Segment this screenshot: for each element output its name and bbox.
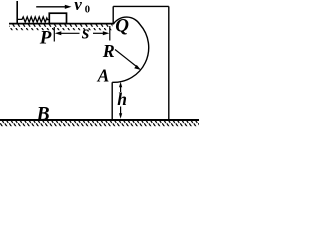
svg-text:R: R: [102, 41, 115, 61]
h dim upper arrow: [119, 82, 122, 88]
h dim lower arrow: [120, 107, 122, 114]
svg-text:B: B: [36, 104, 50, 125]
spring: [18, 17, 49, 22]
svg-text:v: v: [74, 0, 82, 14]
block: [49, 13, 66, 23]
table hatch: [9, 24, 113, 30]
ground hatch: [0, 121, 199, 126]
s arrow left: [55, 31, 62, 35]
s dim right tick: [109, 26, 111, 41]
svg-text:0: 0: [85, 4, 90, 15]
svg-text:A: A: [97, 66, 110, 86]
structure lower-left wall: [111, 82, 113, 120]
structure right edge: [168, 6, 170, 119]
concave arc Q to A: [112, 17, 149, 82]
s arrow right: [103, 31, 110, 35]
svg-text:P: P: [39, 27, 52, 48]
v0 arrow: [36, 6, 66, 8]
svg-text:h: h: [117, 89, 127, 109]
wall: [16, 1, 18, 24]
svg-text:Q: Q: [115, 16, 129, 37]
svg-text:s: s: [81, 23, 89, 44]
R radius arrow: [115, 50, 137, 67]
table surface: [9, 23, 114, 25]
structure top edge: [113, 5, 169, 7]
structure upper-left wall: [112, 6, 114, 24]
ground line: [0, 119, 199, 121]
s dim left tick: [53, 27, 55, 42]
